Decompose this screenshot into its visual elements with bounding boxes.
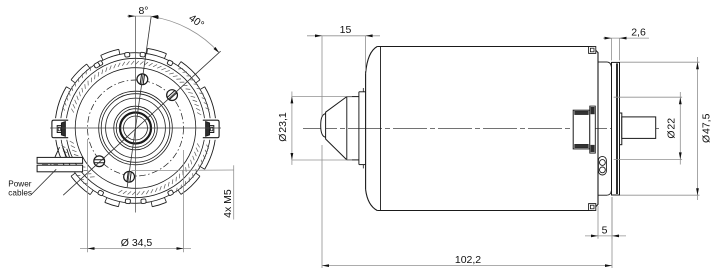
svg-text:Power: Power (8, 180, 31, 189)
angular dimension 40 deg arc (152, 17, 220, 53)
svg-text:cables: cables (8, 189, 32, 198)
dimension d47,5 (620, 61, 700, 63)
shaft bore circles (120, 113, 151, 144)
centerline horizontal (50, 127, 221, 129)
power cables leader line (31, 169, 56, 194)
svg-text:15: 15 (340, 24, 352, 36)
front view: motor flange outer ring (castellated) (148, 48, 167, 53)
nose cylinder d23.1 (347, 96, 359, 98)
side view centerline (303, 128, 659, 130)
rear flange disc 2.6 thick (612, 62, 620, 195)
svg-text:Ø 23,1: Ø 23,1 (277, 112, 289, 142)
body bottom-right screw (589, 204, 596, 211)
mounting ear left (9 o'clock) (51, 118, 71, 140)
slotted screws on bolt circle M5 (137, 74, 148, 85)
shaft collar stub (620, 113, 622, 145)
svg-text:Ø 47,5: Ø 47,5 (701, 113, 713, 143)
power cables (37, 157, 83, 163)
rear neck d47.5 (598, 61, 607, 63)
flange screw holes slot (598, 156, 606, 175)
shaft front cap (321, 114, 326, 138)
nose step cylinder (359, 91, 366, 93)
mounting ear right (3 o'clock) (201, 118, 221, 140)
dimension 2,6 (611, 38, 613, 60)
output shaft (622, 117, 656, 138)
cable gland (55, 147, 60, 157)
internal bearing outer ring (590, 106, 596, 153)
front view knurl band hatching (153, 65, 157, 67)
dimension d22 (614, 96, 683, 98)
outer ring tabs (97, 60, 103, 66)
front view inner circles (75, 68, 196, 189)
svg-text:5: 5 (602, 224, 608, 236)
motor body (366, 47, 598, 211)
svg-text:102,2: 102,2 (455, 254, 481, 266)
svg-text:Ø 22: Ø 22 (666, 118, 678, 139)
body front seam (380, 47, 382, 211)
dimension d23,1 (292, 95, 352, 97)
bolt circle diameter 34.5 (dash-dot) (88, 80, 184, 176)
svg-text:2,6: 2,6 (631, 27, 646, 39)
centerline vertical (135, 16, 137, 212)
svg-text:8°: 8° (138, 5, 148, 17)
svg-text:Ø 34,5: Ø 34,5 (121, 237, 153, 249)
leader 4x M5 (132, 169, 234, 172)
body top-right screw (589, 47, 596, 54)
dimension bolt circle 34.5 (87, 139, 89, 252)
dimension 102,2 (321, 145, 323, 268)
svg-text:4x M5: 4x M5 (222, 189, 234, 218)
dimension 5 (597, 206, 599, 239)
section line at 48 degrees (63, 51, 220, 195)
internal bearing block (573, 110, 590, 149)
line at 8 degrees through bolt hole (127, 16, 151, 187)
dimension 15 (321, 36, 323, 116)
angular dimension 8 deg (127, 15, 151, 17)
front cone (326, 97, 347, 160)
